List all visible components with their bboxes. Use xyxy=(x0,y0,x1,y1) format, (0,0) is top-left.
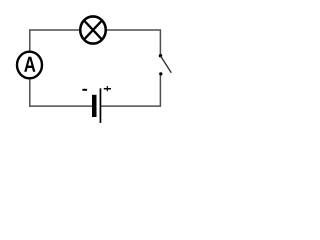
wire top-right segment: lamp right to switch upper contact xyxy=(107,30,161,55)
wire top-left segment: ammeter top to lamp left xyxy=(30,30,80,51)
wire bottom-right segment: battery positive plate to switch lower contact xyxy=(101,74,160,106)
wire bottom-left segment: ammeter bottom to battery negative plate xyxy=(30,79,93,106)
battery label minus xyxy=(82,89,87,91)
battery B1 negative plate (short thick) xyxy=(92,95,97,117)
lamp L1 (circle with X) xyxy=(80,16,106,43)
ammeter label A xyxy=(24,57,35,72)
ammeter M1 (circle) xyxy=(17,52,42,79)
switch S1 upper contact node xyxy=(159,54,163,58)
switch S1 open blade xyxy=(161,56,172,73)
battery B1 positive plate (long thin) xyxy=(100,88,102,123)
switch S1 lower contact node xyxy=(159,72,162,75)
battery label plus xyxy=(104,86,111,91)
